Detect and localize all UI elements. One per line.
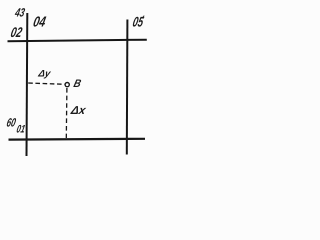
grid line horizontal 01 (bottom) [9, 138, 146, 141]
dashed line Δx offset (vertical from point B) [65, 88, 68, 138]
dashed line Δy offset (horizontal to point B) [28, 83, 64, 84]
grid line vertical 05 (right) [126, 20, 129, 155]
grid line horizontal 02 (top) [8, 40, 147, 42]
grid line vertical 04 (left) [26, 13, 29, 156]
point B circle [65, 83, 69, 87]
paper background [0, 0, 164, 158]
tick mark after 05 [143, 16, 144, 18]
